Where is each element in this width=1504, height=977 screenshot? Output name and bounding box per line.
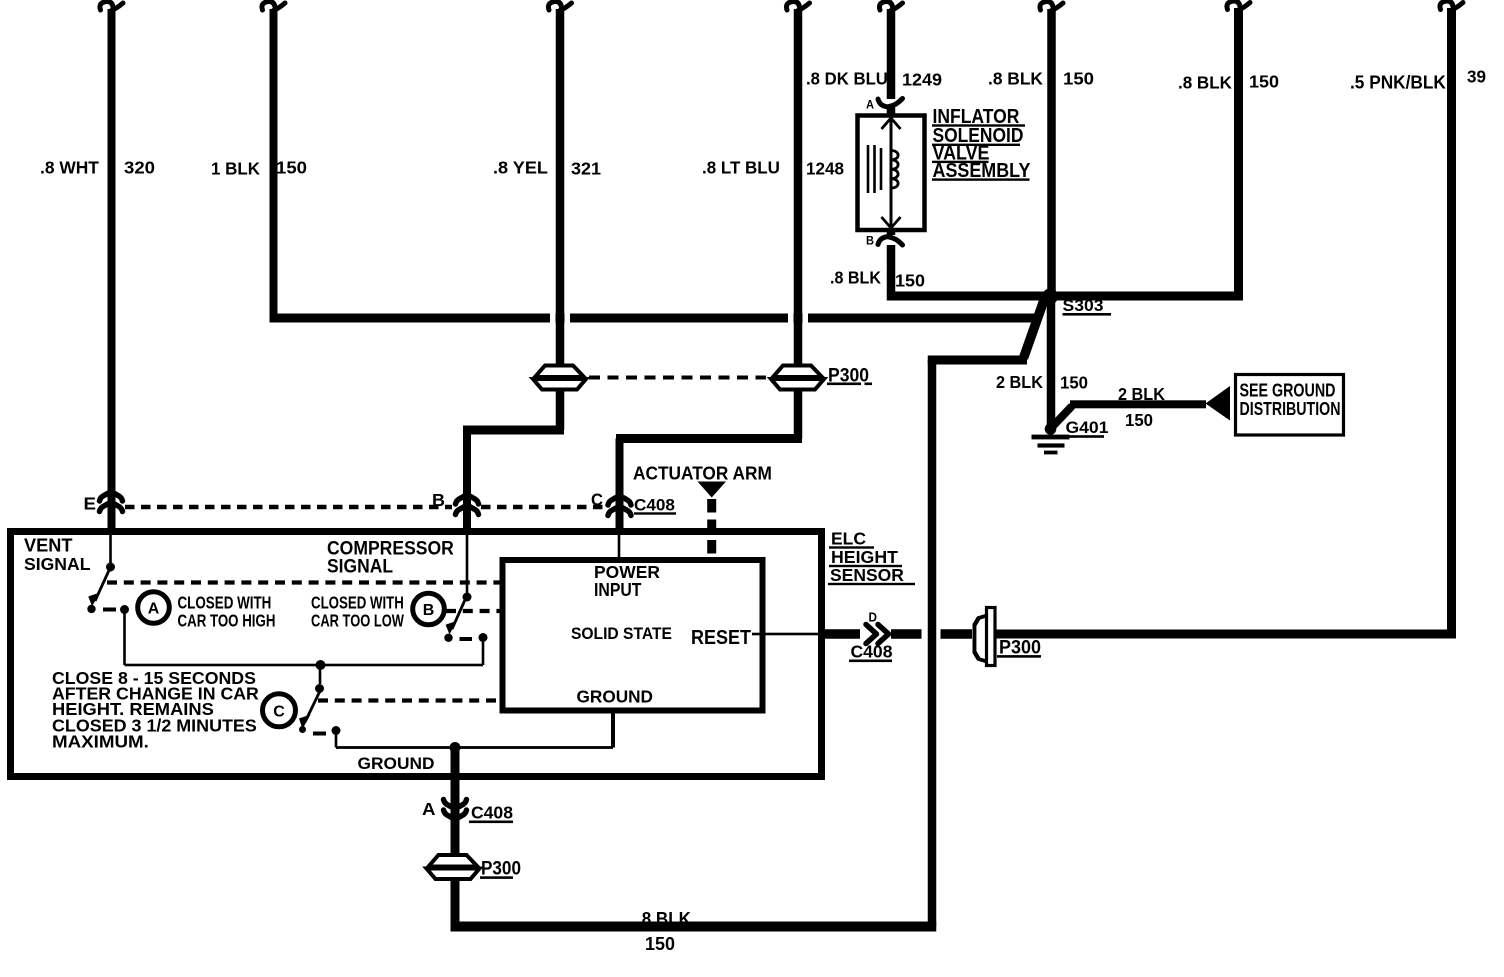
label SOLID STATE xyxy=(571,624,672,643)
switch A contact xyxy=(103,605,129,614)
svg-text:P300: P300 xyxy=(999,636,1041,658)
label .8 BLK xyxy=(830,268,882,288)
connector P300 grommet on LT BLU wire xyxy=(771,366,824,390)
switch A pivot node xyxy=(106,563,115,572)
label 150 xyxy=(1249,71,1279,91)
ground wire bottom run .8 BLK 150 xyxy=(451,300,1045,932)
ELC height sensor box xyxy=(11,532,822,777)
label E xyxy=(84,493,96,514)
connector C408 terminal D xyxy=(866,625,889,644)
svg-text:39: 39 xyxy=(1467,66,1486,86)
label 150 xyxy=(1125,409,1153,430)
inflator solenoid valve assembly box xyxy=(858,116,925,231)
svg-text:CLOSED WITH: CLOSED WITH xyxy=(311,594,404,613)
label INFLATOR SOLENOID VALVE ASSEMBLY xyxy=(932,105,1031,182)
label 150 xyxy=(645,933,675,954)
svg-text:VENT: VENT xyxy=(24,536,72,556)
label C408 xyxy=(634,496,676,515)
ground G401 xyxy=(1032,423,1070,454)
solid state module box xyxy=(503,560,763,711)
label POWER INPUT xyxy=(594,562,660,600)
label 2 BLK xyxy=(996,371,1044,392)
svg-text:GROUND: GROUND xyxy=(358,753,435,773)
label 150 xyxy=(276,157,307,178)
svg-text:P300: P300 xyxy=(481,858,521,879)
label 320 xyxy=(124,157,155,178)
connector C408 terminal A xyxy=(444,800,467,820)
label P300 xyxy=(997,636,1041,658)
label D xyxy=(869,610,878,624)
label .8 BLK xyxy=(1178,72,1232,93)
svg-text:B: B xyxy=(432,490,445,510)
svg-text:G401: G401 xyxy=(1066,417,1109,437)
connector C408 terminal E xyxy=(100,492,123,512)
ground wire down from sensor xyxy=(451,748,460,856)
svg-text:CLOSED WITH: CLOSED WITH xyxy=(178,594,272,613)
svg-text:.5 PNK/BLK: .5 PNK/BLK xyxy=(1350,72,1446,92)
svg-text:.8 BLK: .8 BLK xyxy=(988,68,1043,88)
junction node xyxy=(316,660,326,670)
wire 2 BLK 150 S303 to G401 xyxy=(1047,296,1056,426)
svg-text:DISTRIBUTION: DISTRIBUTION xyxy=(1240,399,1341,419)
svg-text:B: B xyxy=(866,235,874,247)
solenoid coil xyxy=(891,151,898,189)
svg-text:ACTUATOR ARM: ACTUATOR ARM xyxy=(633,463,772,484)
label .8 LT BLU xyxy=(702,157,780,178)
switch C feed xyxy=(315,665,324,693)
label CLOSED WITH CAR TOO LOW xyxy=(311,594,404,631)
valve stem with arrows xyxy=(882,118,901,228)
label RESET xyxy=(691,627,751,649)
label S303 xyxy=(1063,295,1112,315)
solenoid terminal B curl + wire .8 BLK 150 to S303 xyxy=(866,230,1052,301)
svg-text:1249: 1249 xyxy=(902,69,942,89)
label 2 BLK xyxy=(1118,383,1166,404)
svg-text:GROUND: GROUND xyxy=(577,686,653,706)
label 1248 xyxy=(806,158,844,179)
svg-text:SOLID STATE: SOLID STATE xyxy=(571,624,672,643)
connector C408 terminal C xyxy=(608,496,631,516)
svg-text:SENSOR: SENSOR xyxy=(830,565,904,585)
switch C contact xyxy=(313,726,341,736)
box SEE GROUND DISTRIBUTION xyxy=(1236,375,1344,436)
label GROUND (sensor) xyxy=(358,753,435,773)
svg-text:INPUT: INPUT xyxy=(594,580,642,600)
svg-text:.8 DK BLU: .8 DK BLU xyxy=(806,68,888,89)
wire .8 DK BLU 1249 (to solenoid terminal A) xyxy=(879,1,902,116)
svg-text:E: E xyxy=(84,493,96,514)
crossover gap ground riser / reset wire xyxy=(922,627,941,641)
dashed connector face line C408 B-C xyxy=(481,505,605,510)
label .8 WHT xyxy=(40,157,99,177)
ground junction node xyxy=(450,742,461,753)
svg-text:150: 150 xyxy=(1249,71,1279,91)
label G401 xyxy=(1063,417,1109,438)
svg-text:.8 BLK: .8 BLK xyxy=(637,908,691,929)
label 150 xyxy=(895,270,925,290)
label 1 BLK xyxy=(211,158,260,179)
svg-text:.8 BLK: .8 BLK xyxy=(1178,72,1232,93)
svg-text:POWER: POWER xyxy=(594,562,660,582)
svg-text:150: 150 xyxy=(645,933,675,954)
svg-text:150: 150 xyxy=(1063,68,1094,89)
label ELC HEIGHT SENSOR xyxy=(828,529,915,586)
splice S303 xyxy=(1042,289,1058,305)
label C408 xyxy=(469,803,513,824)
wire C into module xyxy=(618,534,621,560)
switch A arm xyxy=(87,567,110,613)
wire .8 LT BLU 1248 (circuit C) xyxy=(616,1,810,534)
mechanical link dashes (A) xyxy=(107,580,500,584)
label C xyxy=(591,490,603,509)
svg-text:2 BLK: 2 BLK xyxy=(996,371,1044,392)
svg-text:.8 LT BLU: .8 LT BLU xyxy=(702,157,780,178)
connector P300 grommet on YEL wire xyxy=(533,366,586,390)
wire .8 WHT 320 (circuit E) xyxy=(100,1,123,490)
svg-text:A: A xyxy=(422,798,435,819)
svg-text:S303: S303 xyxy=(1063,295,1104,315)
connector C408 terminal B xyxy=(456,495,479,515)
dashed connector face line C408 E-B xyxy=(125,505,452,510)
wire 2 BLK 150 to ground distribution xyxy=(1053,400,1207,426)
label P300 xyxy=(827,364,872,386)
svg-text:1248: 1248 xyxy=(806,158,844,179)
wire P300 to PNK/BLK riser xyxy=(995,630,1456,639)
reset wire out of module xyxy=(752,629,922,639)
svg-text:150: 150 xyxy=(895,270,925,290)
label .5 PNK/BLK xyxy=(1350,72,1446,92)
svg-text:HEIGHT: HEIGHT xyxy=(831,547,898,567)
svg-text:C408: C408 xyxy=(634,496,675,515)
svg-text:321: 321 xyxy=(571,158,601,178)
label A xyxy=(422,798,435,819)
label 150 xyxy=(1063,68,1094,89)
wire E into box xyxy=(108,490,116,563)
label COMPRESSOR SIGNAL xyxy=(327,537,454,577)
switch B pivot node xyxy=(463,593,472,602)
wire .5 PNK/BLK 39 (RESET feed) xyxy=(1440,1,1463,639)
label 39 xyxy=(1467,66,1486,86)
solenoid terminal A curl xyxy=(866,99,903,112)
label P300 xyxy=(480,858,521,879)
arrow to see-ground-distribution xyxy=(1206,386,1231,421)
svg-text:150: 150 xyxy=(276,157,307,178)
svg-text:C: C xyxy=(273,704,285,721)
svg-text:D: D xyxy=(869,610,878,624)
svg-text:1 BLK: 1 BLK xyxy=(211,158,260,179)
svg-text:150: 150 xyxy=(1060,372,1088,393)
label .8 BLK xyxy=(637,908,691,929)
wire .8 BLK 150 (right, to S303) xyxy=(1052,1,1251,301)
label .8 BLK xyxy=(988,68,1043,88)
circle A xyxy=(138,592,170,624)
connector P300 grommet (ground) xyxy=(427,855,480,879)
svg-text:.8 WHT: .8 WHT xyxy=(40,157,99,177)
svg-text:CAR TOO LOW: CAR TOO LOW xyxy=(311,612,404,632)
label B xyxy=(432,490,445,510)
svg-text:RESET: RESET xyxy=(691,627,751,649)
svg-text:ELC: ELC xyxy=(831,529,866,549)
svg-text:P300: P300 xyxy=(828,364,869,386)
wire .8 YEL 321 (circuit B) xyxy=(463,1,572,534)
svg-text:.8 YEL: .8 YEL xyxy=(493,158,548,178)
label 321 xyxy=(571,158,601,178)
wire 1 BLK 150 xyxy=(262,1,1029,322)
svg-text:C408: C408 xyxy=(471,803,513,823)
label VENT SIGNAL xyxy=(24,536,91,574)
circle B xyxy=(413,593,445,625)
wire .8 BLK 150 (center, to S303) xyxy=(1040,1,1063,296)
switch B feed xyxy=(466,534,469,593)
crossover gap LT BLU wire xyxy=(788,311,808,325)
connector P300 (reset) xyxy=(940,608,995,666)
switch B arm xyxy=(444,597,466,643)
svg-text:C: C xyxy=(591,490,603,509)
svg-text:2 BLK: 2 BLK xyxy=(1118,383,1166,404)
junction of 1 BLK run into S303 diagonal xyxy=(1029,314,1039,323)
svg-text:A: A xyxy=(866,99,874,111)
svg-text:320: 320 xyxy=(124,157,155,178)
ground wire from switch C and module xyxy=(335,713,615,749)
label ACTUATOR ARM xyxy=(633,463,772,484)
svg-text:A: A xyxy=(148,601,160,618)
svg-text:150: 150 xyxy=(1125,409,1153,430)
label CLOSED WITH CAR TOO HIGH xyxy=(178,594,276,631)
solenoid core lines xyxy=(867,145,883,193)
label .8 DK BLU xyxy=(806,68,888,89)
circle C xyxy=(263,694,296,727)
svg-text:C408: C408 xyxy=(851,642,893,662)
label GROUND (module) xyxy=(577,686,653,706)
svg-text:MAXIMUM.: MAXIMUM. xyxy=(52,732,149,751)
mechanical link dashes (C) xyxy=(318,698,497,702)
label C408 xyxy=(849,642,893,663)
label CLOSE 8 - 15 SECONDS ... xyxy=(52,668,259,751)
crossover gap YEL wire xyxy=(550,311,570,325)
switch B contact xyxy=(460,633,488,642)
svg-text:B: B xyxy=(423,602,435,619)
dashed connector face line P300 xyxy=(589,376,766,380)
label 1249 xyxy=(902,69,942,89)
actuator arm pointer xyxy=(698,482,727,560)
mechanical link dashes (B) xyxy=(446,609,500,613)
label .8 YEL xyxy=(493,158,548,178)
svg-text:SIGNAL: SIGNAL xyxy=(24,554,91,574)
label 150 xyxy=(1060,372,1088,393)
switch C arm with arrow xyxy=(299,691,320,733)
svg-text:.8 BLK: .8 BLK xyxy=(830,268,882,288)
wire from contacts A and B xyxy=(123,610,484,667)
svg-text:CAR TOO HIGH: CAR TOO HIGH xyxy=(178,612,276,631)
svg-text:SIGNAL: SIGNAL xyxy=(327,555,393,577)
svg-text:SEE GROUND: SEE GROUND xyxy=(1240,380,1336,401)
